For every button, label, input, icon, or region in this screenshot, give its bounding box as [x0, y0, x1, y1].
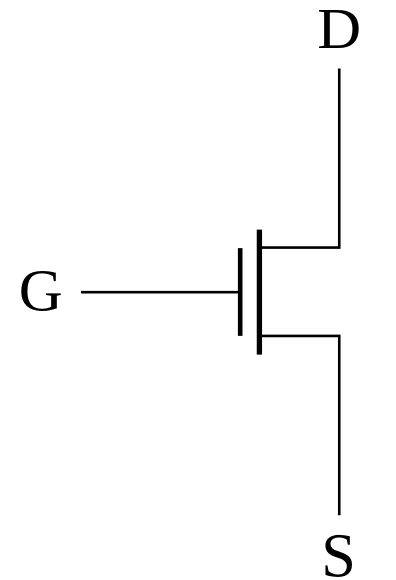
transistor Q1 gate bar: [238, 248, 243, 336]
wire gate (from G to gate bar): [81, 291, 242, 294]
transistor Q1 channel bar: [257, 230, 262, 355]
node S label: [321, 520, 356, 580]
svg-text:D: D: [317, 0, 361, 61]
wire drain (vertical from D down, then left to channel): [259, 69, 339, 248]
wire source (right from channel, then down to S): [259, 336, 339, 515]
svg-text:G: G: [19, 258, 63, 323]
svg-text:S: S: [321, 520, 356, 580]
node G label: [19, 258, 63, 323]
node D label: [317, 0, 361, 61]
